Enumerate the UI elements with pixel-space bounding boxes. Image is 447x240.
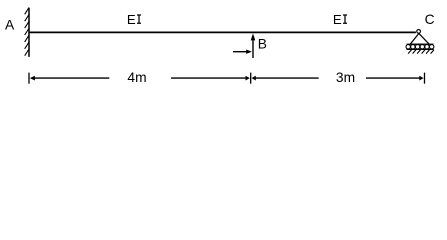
svg-text:3m: 3m <box>336 70 355 85</box>
svg-text:4m: 4m <box>127 70 146 85</box>
rollers <box>406 45 434 49</box>
dimension tick at C <box>424 73 426 84</box>
pin circle at C <box>417 30 421 34</box>
dimension arrow right (3m) <box>419 76 423 81</box>
EI label span AB <box>127 12 141 27</box>
beam A-C <box>29 31 416 33</box>
dimension line 4m right segment <box>171 77 246 79</box>
fixed support wall at A <box>28 8 30 57</box>
roller support triangle at C <box>410 33 429 44</box>
svg-text:A: A <box>5 18 15 33</box>
dimension line 3m left segment <box>256 77 319 79</box>
wall hatching <box>25 8 29 56</box>
ground hatching at C <box>408 50 434 54</box>
EI label span BC <box>333 12 347 27</box>
svg-text:E: E <box>127 12 136 27</box>
dimension arrow right (4m) <box>246 76 250 81</box>
svg-text:C: C <box>425 12 435 27</box>
dimension line 4m left segment <box>35 77 110 79</box>
svg-text:B: B <box>258 36 267 51</box>
dimension tick at B <box>250 73 252 84</box>
dimension arrow left (3m) <box>252 76 256 81</box>
node B marker: vertical line with up arrow <box>251 33 256 58</box>
roller support base line <box>407 43 434 45</box>
dimension line 3m right segment <box>366 77 420 79</box>
dimension arrow left (4m) <box>30 76 35 81</box>
dimension tick at A <box>28 73 30 84</box>
svg-text:E: E <box>333 12 342 27</box>
node B horizontal arrow <box>233 50 252 54</box>
ground line at C <box>407 48 434 50</box>
